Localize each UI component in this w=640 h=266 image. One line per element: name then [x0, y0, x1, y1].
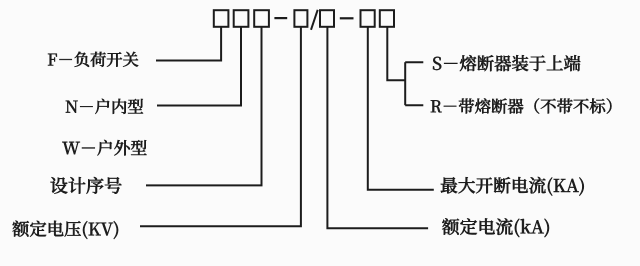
wire box2 to label N: [157, 27, 241, 106]
wire box4 to label eding-dianya: [140, 27, 301, 227]
dash separator 2: [340, 17, 354, 19]
label R-dai-rongduanqi: [431, 98, 612, 113]
label F-fuhe-kaiguan: [48, 52, 138, 67]
label S-rongduanqi: [433, 55, 580, 71]
dash separator 1: [274, 17, 287, 19]
label sheji-xuhao: [51, 177, 122, 194]
wire box1 to label F: [156, 27, 221, 61]
box 6 (max breaking current): [361, 10, 375, 27]
label zuida-kaiduan: [441, 177, 584, 196]
wire box5 to label eding-dianliu: [327, 27, 428, 229]
slash separator: [311, 10, 318, 30]
box 5 (rated current): [320, 10, 334, 27]
wire fork branch to label S: [405, 61, 423, 63]
label eding-dianliu kA: [442, 218, 549, 237]
wire fork vertical: [404, 62, 406, 105]
box 1 (load-switch code F): [214, 10, 229, 27]
label W-huwai-xing: [62, 140, 146, 156]
box 7 (fuse option S/R): [380, 10, 394, 27]
wire fork branch to label R: [405, 104, 423, 106]
wire box3 to label sheji-xuhao: [146, 27, 262, 186]
box 3 (design serial no.): [254, 10, 269, 27]
box 2 (indoor/outdoor code N/W): [234, 10, 249, 27]
wire box6 to label zuida-kaiduan: [368, 27, 434, 190]
wire box7 fork stem: [387, 27, 405, 81]
box 4 (rated voltage): [294, 10, 307, 27]
label N-hunei-xing: [66, 99, 143, 114]
label eding-dianya KV: [12, 221, 118, 239]
